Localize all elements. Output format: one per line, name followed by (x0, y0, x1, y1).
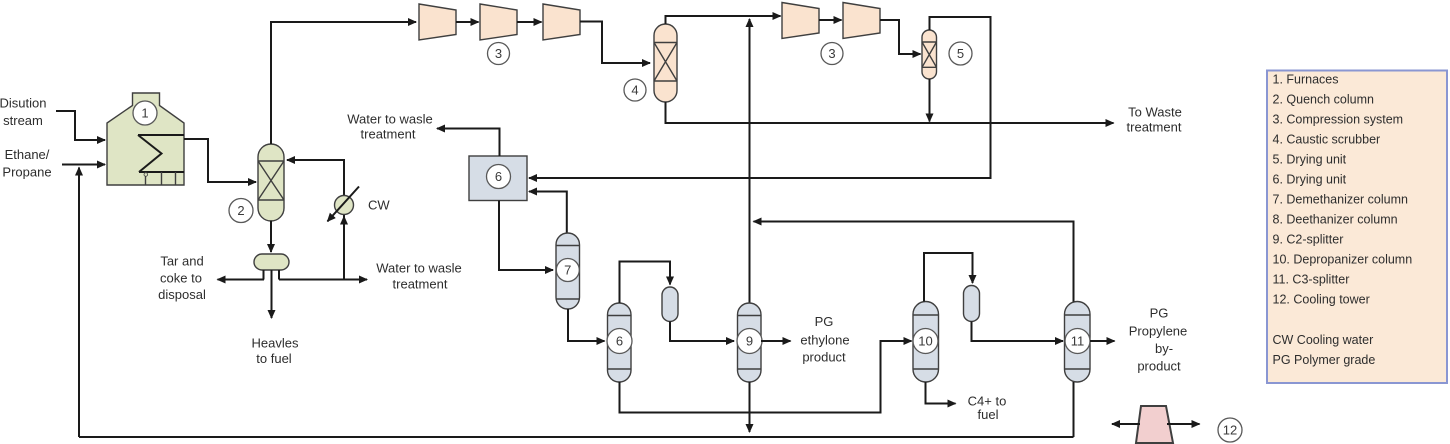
svg-text:ethylone: ethylone (800, 333, 849, 348)
wire: C3-splitter bottoms to header (1073, 382, 1075, 437)
wire: scrubber overhead to second compression (666, 16, 781, 24)
svg-text:Disution: Disution (0, 96, 46, 111)
svg-text:6: 6 (495, 169, 502, 184)
cooling tower 12 (1112, 406, 1200, 443)
wire: drying unit 5 bottoms (929, 79, 931, 122)
wire: quench water to treatment (279, 279, 367, 281)
svg-text:CW Cooling water: CW Cooling water (1273, 333, 1374, 347)
wire: recycle riser to compression suction (749, 19, 751, 303)
compressor K4 (782, 3, 819, 39)
svg-text:10. Depropanizer column: 10. Depropanizer column (1273, 253, 1413, 267)
wire: tar and coke draw (218, 279, 265, 281)
label circle 10 (913, 329, 938, 354)
svg-text:8. Deethanizer column: 8. Deethanizer column (1273, 213, 1398, 227)
C2-splitter C9 (738, 303, 762, 382)
label: Ethane/Propane (2, 147, 51, 180)
label circle 11 (1065, 329, 1090, 354)
wire (819, 19, 842, 21)
label circle 12 (1218, 418, 1242, 442)
demethanizer column C7 (556, 233, 580, 309)
caustic scrubber C4 (654, 24, 677, 102)
svg-text:treatment: treatment (361, 127, 416, 142)
compressor K1 (419, 4, 456, 40)
wire: ethane recycle riser (78, 168, 80, 438)
label: To Waste treatment (1127, 105, 1182, 135)
label: CW (368, 198, 390, 213)
label circle 6 (deethanizer) (607, 329, 632, 354)
wire: C3-splitter product draw (1090, 340, 1115, 342)
svg-text:PG Polymer grade: PG Polymer grade (1273, 353, 1376, 367)
svg-text:5. Drying unit: 5. Drying unit (1273, 153, 1347, 167)
CW cooler (328, 187, 360, 222)
svg-text:3. Compression system: 3. Compression system (1273, 113, 1404, 127)
svg-text:coke to: coke to (160, 271, 202, 286)
svg-text:Propylene: Propylene (1129, 324, 1188, 339)
wire: demethanizer overhead to box 6 (529, 192, 567, 234)
svg-text:Water to wasle: Water to wasle (347, 112, 433, 127)
label circle 9 (737, 329, 762, 354)
C3-splitter C11 (1065, 302, 1091, 383)
wire: deethanizer bottoms to depropanizer (620, 341, 912, 413)
svg-text:PG: PG (815, 314, 834, 329)
svg-text:to fuel: to fuel (256, 351, 292, 366)
svg-text:treatment: treatment (1127, 120, 1182, 135)
svg-text:11. C3-splitter: 11. C3-splitter (1273, 273, 1350, 287)
svg-text:stream: stream (3, 113, 43, 128)
wire: dilution stream inlet (56, 111, 105, 140)
wire: deethanizer overhead to reflux drum 1 (620, 262, 671, 304)
wire: drying unit 5 overhead to drying unit 6 (529, 17, 991, 178)
svg-text:9. C2-splitter: 9. C2-splitter (1273, 233, 1344, 247)
wire: K5 to drying unit 5 (880, 20, 921, 54)
svg-text:Propane: Propane (2, 165, 51, 180)
label circle 6 (drying box) (487, 165, 511, 189)
label: Heavles to fuel (252, 336, 299, 367)
drying unit C5 (922, 30, 937, 79)
svg-text:4: 4 (631, 83, 638, 98)
label: Water to wasle treatment (lower) (376, 261, 462, 292)
svg-text:6. Drying unit: 6. Drying unit (1273, 173, 1347, 187)
wire: box 6 overhead to water treatment (437, 129, 500, 157)
wire: box 6 bottoms to demethanizer (499, 201, 553, 271)
wire: scrubber bottoms waste header (666, 102, 1114, 123)
svg-text:Tar and: Tar and (160, 254, 203, 269)
label: PG ethylone product (800, 314, 849, 365)
svg-text:product: product (1137, 359, 1181, 374)
wire: K3 to caustic scrubber (580, 22, 650, 64)
quench drum (254, 254, 289, 270)
svg-text:4. Caustic scrubber: 4. Caustic scrubber (1273, 133, 1381, 147)
svg-text:3: 3 (495, 46, 502, 61)
quench column C2 (258, 144, 284, 221)
label: Water to wasle treatment (upper) (347, 112, 433, 142)
depropanizer column C10 (913, 302, 939, 383)
label circle 5 (949, 42, 972, 65)
furnace F1 (107, 93, 184, 185)
drying unit box 6 (469, 156, 527, 201)
svg-text:7: 7 (564, 263, 571, 278)
svg-text:9: 9 (746, 334, 753, 349)
label circle 3 (second compression) (821, 43, 843, 65)
wire: C2-splitter bottoms to recycle header (749, 382, 751, 432)
junction arrow up into cooler (340, 216, 348, 225)
svg-text:1. Furnaces: 1. Furnaces (1273, 73, 1339, 87)
wire: depropanizer overhead to reflux drum 2 (924, 253, 973, 302)
reflux drum D1 (662, 287, 678, 322)
wire: quench column bottoms to drum (270, 221, 272, 253)
svg-text:Heavles: Heavles (252, 336, 299, 351)
svg-text:12. Cooling tower: 12. Cooling tower (1273, 293, 1370, 307)
label: Disution stream (0, 96, 46, 129)
svg-text:1: 1 (141, 106, 148, 121)
svg-text:product: product (802, 350, 846, 365)
label circle 2 (229, 199, 253, 223)
wire: furnace outlet to quench column (184, 139, 256, 182)
compressor K2 (480, 4, 517, 40)
label circle 1 (133, 101, 157, 125)
svg-text:treatment: treatment (393, 277, 448, 292)
wire (517, 21, 542, 23)
svg-text:by-: by- (1155, 341, 1173, 356)
wire: C3-splitter overhead recycle to compression (754, 222, 1074, 302)
wire: bottom recycle header (79, 436, 1074, 438)
legend box (1267, 71, 1447, 384)
svg-text:10: 10 (918, 334, 932, 349)
svg-text:11: 11 (1071, 334, 1085, 349)
wire: drum legs (264, 270, 280, 280)
compressor K3 (543, 4, 580, 40)
label: Tar and coke to disposal (158, 254, 206, 303)
svg-text:5: 5 (957, 46, 964, 61)
svg-text:7. Demethanizer column: 7. Demethanizer column (1273, 193, 1409, 207)
wire: demethanizer bottoms to deethanizer (568, 309, 605, 341)
wire: heavies to fuel (271, 270, 273, 318)
wire: C2-splitter product draw (761, 340, 791, 342)
label: C4+ to fuel (968, 394, 1007, 423)
svg-text:fuel: fuel (978, 407, 999, 422)
reflux drum D2 (964, 286, 980, 322)
svg-text:disposal: disposal (158, 287, 206, 302)
label circle 3 (first compression) (488, 43, 510, 65)
wire: ethane/propane inlet (62, 164, 105, 166)
wire: depropanizer bottoms to fuel (926, 382, 956, 404)
label: PG Propylene by-product (1129, 306, 1188, 374)
svg-text:Water to wasle: Water to wasle (376, 261, 462, 276)
svg-text:2: 2 (237, 203, 244, 218)
svg-text:3: 3 (828, 46, 835, 61)
svg-text:To Waste: To Waste (1128, 105, 1182, 120)
label circle 4 (624, 79, 646, 101)
svg-text:12: 12 (1223, 423, 1237, 438)
wire: drum 2 to C3-splitter (972, 322, 1064, 342)
wire: quench overhead riser to compressors (271, 22, 416, 144)
wire (456, 21, 479, 23)
deethanizer column C8 (labelled 6) (608, 303, 632, 382)
wire: drum 1 to C2-splitter (670, 322, 734, 342)
svg-text:CW: CW (368, 198, 390, 213)
svg-text:6: 6 (616, 334, 623, 349)
compressor K5 (843, 3, 880, 39)
svg-text:Ethane/: Ethane/ (5, 147, 50, 162)
svg-text:PG: PG (1150, 306, 1169, 321)
svg-text:2. Quench column: 2. Quench column (1273, 93, 1374, 107)
wire: quench water recirculation through CW cooler (287, 160, 344, 280)
label circle 7 (556, 259, 579, 282)
